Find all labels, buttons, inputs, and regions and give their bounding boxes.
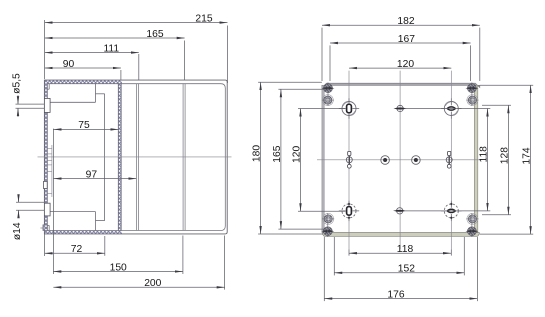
corner screw detail bottom-right — [466, 213, 479, 237]
boss centerline left column — [348, 71, 350, 250]
dim dia 5,5 — [11, 73, 44, 117]
dim 174 right — [480, 85, 533, 234]
dim 165 left — [272, 89, 326, 229]
screw boss bottom-right — [441, 201, 461, 221]
dim 128 right — [482, 105, 511, 214]
screw boss top-left — [339, 98, 359, 118]
dim 118 right — [404, 109, 490, 211]
inner vertical wall line — [104, 94, 106, 221]
svg-text:180: 180 — [252, 145, 263, 162]
svg-text:97: 97 — [86, 169, 98, 180]
hatched middle wall — [118, 84, 121, 231]
mounting lug bottom — [44, 203, 50, 216]
svg-text:165: 165 — [272, 145, 283, 162]
svg-text:167: 167 — [398, 34, 415, 45]
centerline horizontal right view — [317, 159, 482, 161]
svg-text:128: 128 — [499, 147, 510, 164]
screw boss bottom-left — [339, 201, 359, 221]
dim 120 top — [349, 59, 451, 70]
center hole mark top — [394, 105, 407, 111]
svg-text:75: 75 — [78, 120, 90, 131]
middle hole right — [412, 156, 421, 165]
svg-text:90: 90 — [63, 59, 75, 70]
svg-text:150: 150 — [110, 262, 127, 273]
dim 150 — [53, 262, 183, 273]
left edge strip — [322, 85, 324, 232]
corner screw detail top-left — [322, 82, 335, 106]
dim 75 — [54, 120, 119, 131]
svg-text:165: 165 — [146, 29, 163, 40]
dim 165 top — [45, 29, 185, 40]
screw boss top-right — [441, 98, 461, 118]
centerline left view — [38, 156, 232, 158]
inner contour of side view — [47, 84, 225, 231]
wall clip block — [44, 181, 48, 188]
svg-text:176: 176 — [387, 290, 404, 301]
hatched top wall — [44, 80, 122, 84]
dim 180 left — [252, 82, 323, 234]
mounting lug top — [44, 98, 50, 112]
svg-text:182: 182 — [397, 16, 414, 27]
svg-text:111: 111 — [103, 44, 119, 55]
dim 72 — [45, 244, 105, 255]
corner step top-left — [48, 84, 50, 90]
dim 152 — [334, 264, 464, 275]
centerline vertical right view — [399, 71, 401, 249]
dim 215 — [45, 13, 228, 24]
hatched left wall — [44, 80, 47, 234]
svg-text:72: 72 — [71, 244, 83, 255]
wall clip ticks — [47, 147, 52, 149]
svg-text:ø5,5: ø5,5 — [11, 73, 22, 94]
dim 97 — [54, 169, 137, 180]
middle wall edges — [117, 84, 119, 231]
outer contour of side view — [44, 80, 227, 234]
corner screw detail top-right — [466, 82, 479, 106]
right view: enclosure top view — [322, 83, 480, 236]
inner wall thin line — [51, 145, 53, 197]
left wall inner edge — [46, 84, 48, 231]
side spindle hole right — [446, 151, 452, 168]
svg-text:120: 120 — [292, 146, 303, 163]
top edge strip — [322, 83, 480, 87]
bottom edge strip — [322, 233, 479, 237]
right edge strip — [474, 85, 478, 232]
dim 120 left — [292, 109, 346, 212]
center hole mark bottom — [393, 208, 406, 214]
boss centerline right column — [450, 71, 452, 250]
dim 118 bottom — [349, 244, 451, 255]
svg-text:200: 200 — [144, 278, 161, 289]
svg-text:ø14: ø14 — [12, 222, 23, 240]
middle hole left — [381, 156, 390, 165]
dim 200 — [53, 278, 224, 289]
corner screw detail bottom-left — [321, 213, 334, 237]
dim 111 — [45, 44, 139, 55]
inner boss contour top — [50, 101, 95, 103]
dim extension lines right view — [322, 28, 480, 302]
dim 182 — [322, 16, 480, 27]
inner boss contour bottom — [50, 211, 95, 213]
dim extension lines left view — [45, 20, 228, 290]
hatched bottom wall — [44, 231, 122, 234]
lid profile line pair 1 — [135, 84, 137, 230]
dim dia 14 — [12, 195, 45, 240]
left view: enclosure side section — [38, 80, 232, 234]
svg-text:152: 152 — [398, 264, 415, 275]
dim 176 — [324, 290, 477, 301]
lid profile line pair 2 — [182, 84, 184, 230]
svg-text:215: 215 — [195, 13, 212, 24]
corner foot bottom-left — [43, 225, 47, 231]
dim 90 — [45, 59, 121, 70]
svg-text:118: 118 — [479, 146, 490, 163]
side spindle hole left — [346, 151, 352, 168]
dim 167 — [330, 34, 471, 45]
corner step bottom-left — [48, 225, 50, 230]
svg-text:174: 174 — [522, 147, 533, 164]
svg-text:120: 120 — [397, 59, 414, 70]
svg-text:118: 118 — [397, 244, 414, 255]
